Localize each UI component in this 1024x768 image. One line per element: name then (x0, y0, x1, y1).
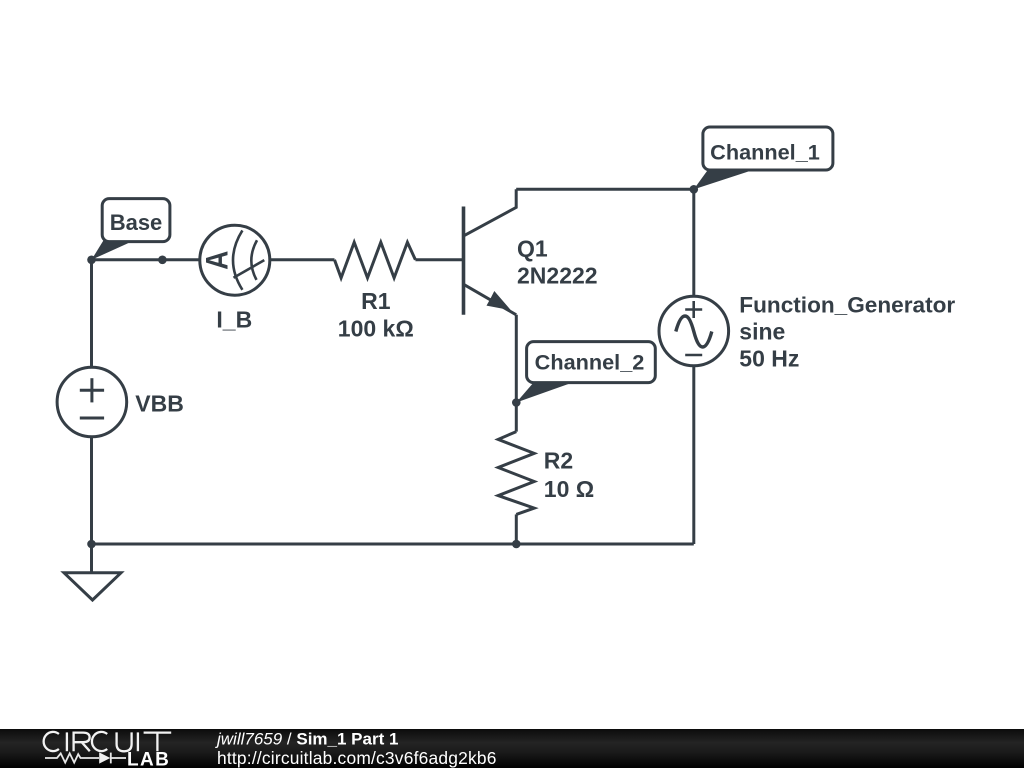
junction node base-left (87, 255, 96, 264)
junction node bottom R2 (512, 540, 521, 549)
transistor Q1 emitter arrow (487, 291, 511, 310)
svg-text:jwill7659 / Sim_1 Part 1: jwill7659 / Sim_1 Part 1 (215, 730, 398, 749)
svg-text:http://circuitlab.com/c3v6f6ad: http://circuitlab.com/c3v6f6adg2kb6 (217, 748, 497, 768)
ammeter I_B (200, 225, 270, 295)
svg-text:R2: R2 (544, 447, 573, 473)
ground (64, 573, 121, 600)
wire R2 bottom lead (515, 514, 518, 544)
resistor R1 (335, 242, 416, 278)
svg-text:sine: sine (739, 319, 785, 345)
wire emitter vertical (515, 315, 518, 432)
svg-text:Channel_2: Channel_2 (535, 349, 645, 374)
callout Channel_2 box (527, 342, 656, 383)
wire bottom horizontal (92, 543, 694, 546)
svg-text:I_B: I_B (216, 307, 252, 333)
svg-text:50 Hz: 50 Hz (739, 346, 799, 372)
transistor Q1 (462, 207, 466, 315)
footer bar (0, 729, 1024, 768)
wire generator to bottom (692, 367, 695, 544)
svg-text:10 Ω: 10 Ω (544, 476, 594, 502)
svg-text:2N2222: 2N2222 (517, 263, 598, 289)
logo CIRCUIT lettering (44, 732, 172, 751)
svg-text:Function_Generator: Function_Generator (739, 292, 955, 317)
svg-text:Q1: Q1 (517, 235, 548, 261)
callout Channel_2 tail (516, 382, 574, 403)
junction node bottom left (87, 540, 96, 549)
voltage source VBB (57, 367, 127, 437)
svg-text:Channel_1: Channel_1 (710, 139, 820, 164)
wire ammeter to R1 (270, 258, 335, 261)
callout Base tail (92, 240, 135, 260)
svg-text:VBB: VBB (135, 391, 184, 417)
svg-text:Base: Base (110, 210, 163, 235)
svg-text:LAB: LAB (127, 750, 170, 768)
wire right vertical to generator (692, 189, 695, 295)
wire ground stub (90, 544, 93, 573)
wire R1 to Q1 base (415, 258, 462, 261)
callout Channel_1 tail (694, 169, 756, 189)
wire left vertical VBB bottom (90, 438, 93, 545)
logo resistor-diode wire (45, 753, 126, 764)
function generator (659, 296, 729, 366)
wire base horizontal left (92, 258, 200, 261)
wire top horizontal collector to node (516, 188, 694, 191)
svg-text:R1: R1 (361, 288, 391, 314)
wire left vertical VBB top (90, 260, 93, 367)
junction node channel1 (690, 185, 699, 194)
logo diode triangle (99, 752, 110, 763)
svg-text:A: A (200, 251, 235, 270)
svg-text:100 kΩ: 100 kΩ (338, 315, 414, 341)
junction node channel2 (512, 398, 521, 407)
junction node base tap (158, 255, 167, 264)
callout Base box (102, 199, 170, 242)
resistor R2 (498, 432, 534, 515)
callout Channel_1 box (703, 127, 833, 170)
